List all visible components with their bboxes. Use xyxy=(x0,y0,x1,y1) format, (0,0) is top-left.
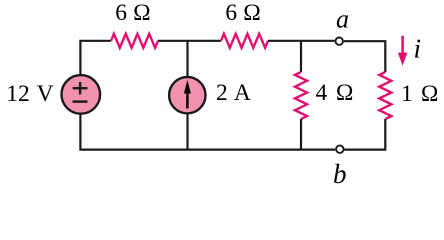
wire: top-left horizontal segment from left corner to R1 xyxy=(80,41,111,75)
wire: left branch below source to bottom-left corner xyxy=(80,114,188,149)
resistor R4 (1 ohm, vertical) xyxy=(379,72,391,119)
I1 arrow up xyxy=(186,92,188,108)
resistor R1 (6 ohm, top-left) xyxy=(111,34,158,48)
wire: top segment from R2 to node a xyxy=(268,40,335,42)
V1 plus sign xyxy=(73,82,88,94)
svg-text:6 Ω: 6 Ω xyxy=(225,0,261,26)
V1 minus sign xyxy=(73,100,88,102)
wire: 2A branch top (circle to top wire) xyxy=(186,41,188,77)
svg-text:6 Ω: 6 Ω xyxy=(115,0,151,26)
wire: top segment from node a to top-right corner, down to 1-ohm xyxy=(344,41,386,72)
wire: 2A branch bottom (circle to bottom wire) xyxy=(186,114,188,150)
resistor R2 (6 ohm, top-right) xyxy=(221,34,268,48)
node b terminal circle xyxy=(336,145,344,153)
wire: 4-ohm branch bottom stub xyxy=(300,119,302,150)
wire: top segment between R1 and R2 (through 2A top junction) xyxy=(158,40,221,42)
resistor R3 (4 ohm, vertical) xyxy=(295,72,307,119)
svg-text:4 Ω: 4 Ω xyxy=(316,80,354,106)
svg-text:a: a xyxy=(336,4,349,33)
svg-text:1 Ω: 1 Ω xyxy=(401,81,439,107)
svg-text:2 A: 2 A xyxy=(216,80,251,106)
svg-text:i: i xyxy=(414,33,422,63)
wire: 1-ohm bottom to bottom-right corner to node b xyxy=(344,119,385,150)
current source I1 (2 A) circle xyxy=(169,77,205,113)
svg-text:12 V: 12 V xyxy=(6,81,53,107)
current arrow i (pink, downward) xyxy=(401,36,404,54)
svg-text:b: b xyxy=(333,159,347,189)
wire: 4-ohm branch top stub xyxy=(300,41,302,72)
voltage source V1 (12 V) circle xyxy=(62,75,101,114)
node a terminal circle xyxy=(336,38,343,45)
wire: bottom segment from node b to 2A/4-ohm junctions xyxy=(188,149,335,151)
